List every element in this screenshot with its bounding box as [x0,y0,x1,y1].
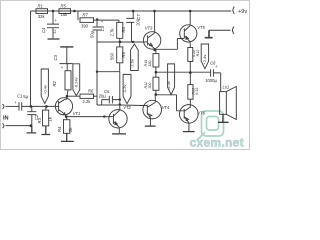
wire mid horizontal at preamp [97,41,147,43]
svg-text:+2.4v: +2.4v [202,55,207,65]
voltage arrow -2.4v [168,64,175,95]
transistor VT4 [143,100,162,119]
resistor R1 [36,9,48,14]
svg-text:C3: C3 [53,54,58,60]
svg-text:-0.4v: -0.4v [42,85,47,94]
svg-text:VT4: VT4 [162,105,170,110]
transistor VT3 [143,32,160,49]
wire left column [30,11,32,106]
wire input to C1 [6,105,20,107]
svg-text:VT1: VT1 [73,111,81,116]
capacitor C4 [47,11,59,38]
resistor R4 [66,117,68,120]
wire R12 to output node [189,62,191,85]
svg-text:-2.4v: -2.4v [166,81,171,90]
transistor VT2 [109,110,127,128]
watermark logo [197,111,224,141]
voltage arrow +2.4v [201,44,208,69]
ground under VT6 [183,131,195,133]
svg-text:C7: C7 [136,14,141,20]
svg-text:Ls1: Ls1 [223,84,230,89]
svg-text:R4: R4 [57,126,62,132]
wire R11 bottom [155,90,157,95]
resistor R3 [45,106,47,110]
resistor R10 [153,54,159,67]
junction dots [30,10,192,127]
svg-text:VT2: VT2 [123,105,131,110]
resistor R13 [188,85,193,100]
svg-text:1k: 1k [47,116,52,121]
svg-text:R2: R2 [52,80,57,86]
svg-text:IN: IN [3,116,9,122]
capacitor C8 [211,69,221,91]
wire R9 column down [119,72,121,105]
terminal +9v [233,7,234,14]
svg-text:+9v: +9v [238,9,247,15]
svg-text:R5: R5 [61,3,67,8]
svg-text:+: + [61,65,64,70]
svg-text:VT5: VT5 [197,25,205,30]
wire C6 lower link [97,100,120,105]
svg-text:R9: R9 [121,51,126,57]
wire R10 bottom [155,67,157,77]
resistor R8 [117,22,123,38]
svg-text:180: 180 [148,61,152,67]
svg-text:cxem.net: cxem.net [190,136,244,150]
voltage arrow -2.6v [131,44,139,71]
frame border [1,1,250,150]
capacitor C6 [102,96,120,103]
wire C6 node to VT4 base [120,104,148,107]
resistor R12 [188,48,193,62]
svg-text:VT6: VT6 [197,111,205,116]
svg-text:R3: R3 [37,117,42,123]
capacitor C3 [60,46,73,48]
ground under R4 [61,133,74,141]
svg-text:20µ: 20µ [99,93,107,98]
svg-text:0.22: 0.22 [195,88,199,95]
svg-text:C4: C4 [41,27,46,33]
svg-text:R7: R7 [83,13,89,18]
svg-text:R8: R8 [121,26,126,32]
voltage arrow -1.2v [123,74,131,103]
ground under VT2 [112,133,126,135]
ground at terminal [205,30,213,38]
wire R7 branch [77,11,79,20]
capacitor C2 [27,106,36,125]
svg-text:+: + [215,64,218,69]
svg-text:R1: R1 [38,3,43,8]
wire R11 to VT6 base [156,95,184,111]
wire R13 to VT6 [189,99,191,107]
svg-text:50µ: 50µ [90,30,95,38]
wire R9 bottom [119,63,121,72]
svg-text:2.2k: 2.2k [83,99,92,104]
svg-text:300: 300 [148,83,152,89]
transistor VT5 [180,25,197,42]
ground under R3 [41,126,50,135]
svg-text:+: + [14,100,17,105]
wire top rail [31,10,232,12]
svg-text:5µ: 5µ [23,94,28,99]
svg-text:18k: 18k [61,12,69,17]
input terminal top [3,104,5,109]
speaker Ls1 [220,92,227,115]
input terminal bottom [3,123,5,128]
terminal common [209,27,234,34]
svg-text:2.7k: 2.7k [109,28,114,37]
resistor R11 [153,77,159,90]
wire lower mid horizontal [97,71,120,73]
wire R7 to R8 [94,20,119,22]
svg-text:-2.6v: -2.6v [129,59,134,68]
wire VT1 emitter [66,116,113,118]
wire R8-R9 junction [119,38,121,47]
ground under speaker [218,114,229,122]
ground under VT4 [145,125,156,127]
wire C1 to VT1 base [22,105,56,107]
wire C5 column [96,30,98,105]
svg-text:12: 12 [52,29,57,34]
svg-text:VT3: VT3 [145,25,153,30]
svg-text:R6: R6 [88,88,94,93]
resistor R7 [80,18,94,23]
wire to output node [156,71,211,73]
capacitor C5 [93,20,102,30]
capacitor C1 [19,102,22,110]
svg-text:-0.24v: -0.24v [74,77,79,88]
resistor R6 [67,95,80,97]
voltage arrow -0.4v [41,69,48,104]
svg-text:-1.2v: -1.2v [122,85,127,94]
svg-text:390: 390 [81,23,89,28]
svg-text:200: 200 [135,18,140,26]
svg-text:C5: C5 [100,25,105,31]
capacitor C7 [126,11,134,42]
wire R11 to VT4 collector [154,95,156,103]
ground under C2 [27,126,37,133]
svg-text:560: 560 [109,52,114,60]
resistor R9 [117,47,123,63]
wire lower input rail [6,125,32,127]
svg-text:C1: C1 [17,94,22,99]
svg-text:32k: 32k [38,14,46,19]
resistor R2 [66,68,68,71]
svg-text:+: + [55,18,58,23]
svg-text:R12: R12 [196,50,200,57]
transistor VT6 [180,105,199,124]
resistor R5 [59,9,71,14]
voltage arrow -0.24v [73,64,80,96]
ground under C4 [48,38,60,40]
svg-text:1000µ: 1000µ [205,78,217,83]
wire VT3 emitter node [154,39,184,54]
transistor VT1 [55,98,72,115]
